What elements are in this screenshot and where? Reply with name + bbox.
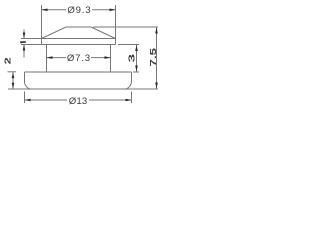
dim 7.5 line xyxy=(156,28,158,89)
dim 3 bottom extension line xyxy=(133,71,139,73)
arrowhead 1 lower (points up) xyxy=(23,45,26,51)
svg-text:Ø13: Ø13 xyxy=(69,96,88,107)
arrowhead 2 bottom (points down) xyxy=(12,83,15,89)
arrowhead 2 top (points up) xyxy=(12,72,15,78)
arrowhead 7.5 bottom (points down) xyxy=(155,83,158,89)
cap bottom edge y=38.5 (with left extension for dim 1) xyxy=(21,38,116,40)
dim 13 left extension line xyxy=(24,92,26,104)
dim 3 top extension line xyxy=(118,44,139,46)
cap band left edge xyxy=(41,39,43,45)
part cap top outline xyxy=(42,27,116,39)
dim 13 line right segment xyxy=(89,99,132,101)
svg-text:Ø7.3: Ø7.3 xyxy=(67,53,91,64)
flange right edge xyxy=(131,72,133,83)
svg-text:3: 3 xyxy=(128,53,137,63)
flange left edge xyxy=(24,72,26,83)
dim 9.3 right extension line xyxy=(115,5,117,39)
svg-text:7.5: 7.5 xyxy=(148,48,158,67)
arrowhead 3 top (points up) xyxy=(135,45,138,51)
dim 13 line left segment xyxy=(25,99,68,101)
arrowhead 7.3 right xyxy=(105,56,111,59)
arrowhead 9.3 right xyxy=(110,9,116,12)
dim 9.3 left extension line xyxy=(41,5,43,39)
dim 13 right extension line xyxy=(131,92,133,104)
dim 7.3 line right segment xyxy=(91,57,111,59)
arrowhead 1 upper (points down) xyxy=(23,33,26,39)
arrowhead 13 left xyxy=(25,99,31,102)
stem left edge xyxy=(46,45,48,73)
stem right edge xyxy=(110,45,112,73)
dim 9.3 line right segment xyxy=(92,9,116,11)
arrowhead 7.5 top (points up) xyxy=(155,28,158,34)
flange bottom edge long line (merges left ext of dim 2 and right ext of dim 7.5) xyxy=(8,88,158,90)
dim 1 lower arrow line xyxy=(23,45,25,58)
cap underside y=44.5 (with left extension for dim 1) xyxy=(21,44,116,46)
flange top edge xyxy=(25,71,132,73)
dim 2 line xyxy=(12,72,14,88)
arrowhead 3 bottom (points down) xyxy=(135,66,138,72)
svg-text:Ø9.3: Ø9.3 xyxy=(67,5,91,16)
flange bottom-left corner arc xyxy=(25,83,32,89)
arrowhead 9.3 left xyxy=(42,9,48,12)
label 1 (rotated, drawn as bar with flag) xyxy=(20,41,25,43)
svg-text:2: 2 xyxy=(3,57,12,65)
arrowhead 13 right xyxy=(126,99,132,102)
dim 1 upper arrow line xyxy=(23,30,25,39)
dim 9.3 line left segment xyxy=(42,9,67,11)
dim 7.3 line left segment xyxy=(47,57,67,59)
flange bottom-right corner arc xyxy=(125,83,132,90)
arrowhead 7.3 left xyxy=(47,56,53,59)
cap band right edge xyxy=(115,39,117,45)
dim 3 line xyxy=(136,45,138,72)
dim 7.5 top extension line xyxy=(93,26,158,28)
dim 2 top extension line xyxy=(8,71,17,73)
